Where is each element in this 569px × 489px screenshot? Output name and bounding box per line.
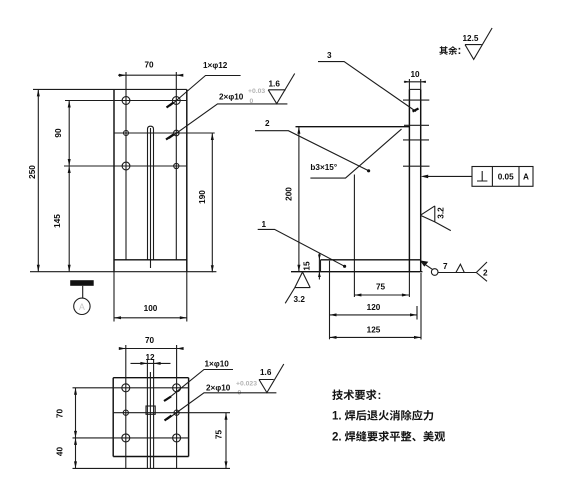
plate outline front view [30, 89, 216, 271]
svg-text:+0.03: +0.03 [248, 88, 265, 95]
svg-text:10: 10 [410, 70, 420, 79]
dimension 250 [28, 89, 40, 271]
hole row lines [64, 101, 215, 167]
dimension 120 [330, 303, 418, 316]
dimension 40 left (bottom view) [56, 438, 78, 469]
svg-text:12.5: 12.5 [463, 34, 479, 43]
chamfer note b3x15 [310, 129, 401, 178]
label 1 leader [258, 220, 347, 268]
plate 2 outline [296, 127, 410, 297]
roughness 3.2 right side (rotated) [420, 206, 451, 231]
label 1x12 leader [167, 61, 241, 108]
svg-text:1×φ10: 1×φ10 [205, 360, 230, 369]
inner plate lines bottom view [126, 345, 177, 468]
svg-text:145: 145 [53, 214, 62, 228]
dimension 70 left (bottom view) [56, 388, 78, 438]
vertical plate 3 outline [409, 79, 420, 272]
roughness symbol 1.6 front view [268, 74, 295, 104]
label 3 leader [318, 51, 419, 112]
holes bottom view [122, 384, 181, 442]
dimension 200 (left edge of plate 2) [285, 127, 301, 272]
geometric tolerance frame [421, 167, 533, 187]
roughness symbol 1.6 bottom view [259, 364, 284, 393]
hole top-left [122, 97, 130, 105]
svg-text:3.2: 3.2 [437, 207, 446, 219]
weld symbol with circle [420, 260, 488, 281]
weld seam tick y125 [404, 124, 429, 126]
surface roughness 12.5 (general note) [439, 28, 492, 59]
svg-text:125: 125 [367, 326, 381, 335]
svg-text:90: 90 [54, 128, 63, 138]
svg-text:b3×15°: b3×15° [310, 163, 337, 172]
svg-text:2×φ10: 2×φ10 [206, 384, 231, 393]
svg-text:A: A [523, 173, 529, 182]
svg-text:120: 120 [367, 303, 381, 312]
hole top-right [172, 97, 180, 105]
svg-text:0.05: 0.05 [498, 173, 514, 182]
label 2x10 leader [166, 88, 287, 140]
weld seam tick y166 (datum extension) [403, 165, 430, 167]
dimension 70 top (bottom view) [119, 336, 184, 350]
extension lines bottom dims [330, 261, 422, 340]
svg-text:2×φ10: 2×φ10 [219, 93, 244, 102]
svg-text:1.6: 1.6 [260, 368, 272, 377]
svg-text:75: 75 [215, 430, 224, 440]
base plate side view [291, 260, 422, 272]
svg-text:+0.023: +0.023 [236, 381, 257, 388]
datum symbol A [70, 280, 94, 314]
dimension 75 right (bottom view) [215, 413, 228, 469]
svg-text:2.: 2. [332, 432, 342, 444]
rib lines bottom view [146, 360, 155, 468]
label 2x10 leader (bottom view) [165, 381, 277, 421]
svg-text:70: 70 [145, 336, 155, 345]
svg-text:15: 15 [303, 261, 312, 271]
svg-text:70: 70 [144, 61, 154, 70]
svg-text:1.6: 1.6 [269, 80, 281, 89]
weld seam tick y100 [403, 99, 429, 101]
roughness 3.2 bottom (inverted) [285, 272, 310, 304]
svg-text:75: 75 [376, 283, 386, 292]
label 2 leader [255, 119, 370, 172]
dimension 10 top [404, 70, 426, 83]
svg-text:7: 7 [443, 262, 448, 271]
svg-text:200: 200 [285, 187, 294, 201]
hole bottom-left [122, 162, 130, 170]
svg-text:2: 2 [265, 119, 270, 128]
dimension 90 [54, 101, 71, 167]
hole row lines bottom view [73, 388, 231, 469]
hole mid-left [124, 131, 129, 136]
svg-text:40: 40 [56, 447, 65, 457]
hole mid-right [174, 130, 180, 136]
svg-text:190: 190 [198, 190, 207, 204]
svg-text:1.: 1. [332, 411, 342, 423]
dimension 100 bottom [114, 272, 187, 322]
svg-text:3: 3 [327, 51, 332, 60]
hole bottom-right [174, 163, 179, 168]
dimension 145 [53, 166, 71, 272]
center rib slot [148, 126, 154, 268]
dimension 190 right [198, 133, 214, 272]
svg-text::: : [458, 45, 462, 57]
dimension 15 [303, 253, 321, 280]
rear plate edge lines / hole column lines [126, 72, 176, 260]
svg-text:100: 100 [144, 304, 158, 313]
label 1x10 leader (bottom view) [164, 360, 233, 402]
dimension 125 [330, 326, 422, 339]
dimension 12 [131, 353, 171, 365]
svg-text:12: 12 [145, 353, 155, 362]
bottom view outline [113, 378, 188, 457]
svg-text:70: 70 [56, 409, 65, 419]
weld seam tick y140 [403, 139, 429, 141]
svg-text:2: 2 [483, 269, 488, 278]
note title [332, 389, 376, 400]
svg-text:1: 1 [262, 220, 267, 229]
svg-text:1×φ12: 1×φ12 [203, 61, 228, 70]
bottom strip (base plate edge) [114, 259, 187, 261]
dimension 75 [354, 283, 409, 297]
svg-text::: : [378, 390, 382, 402]
svg-text:3.2: 3.2 [294, 295, 306, 304]
dimension 70 top [118, 61, 183, 77]
svg-text:250: 250 [28, 165, 37, 179]
svg-text:A: A [79, 302, 85, 312]
